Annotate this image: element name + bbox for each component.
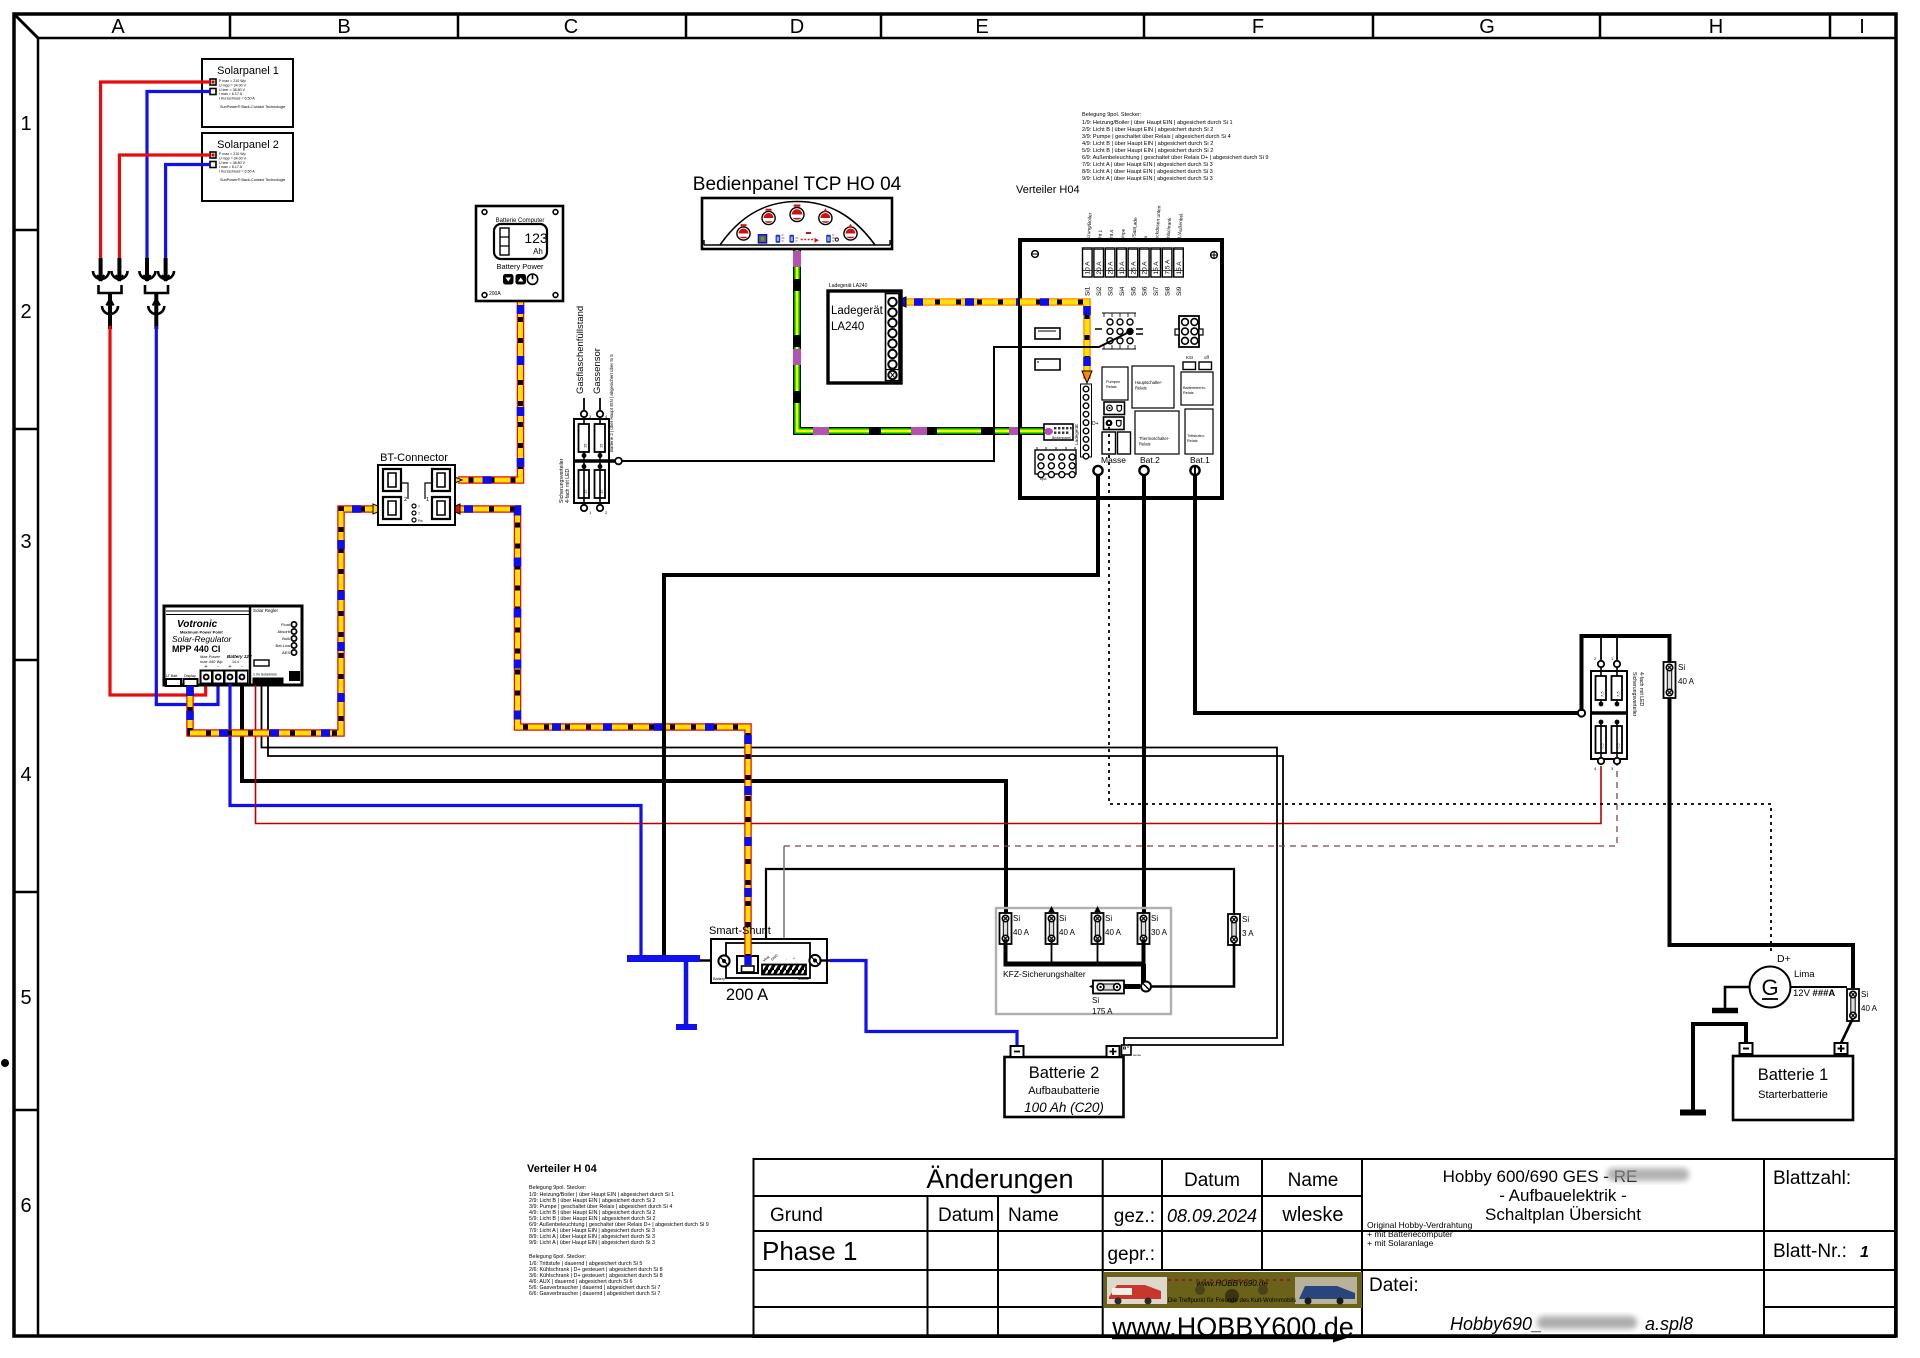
solar socket bracket 1 xyxy=(99,285,122,293)
svg-text:Gasflaschenfüllstand: Gasflaschenfüllstand xyxy=(575,306,586,394)
svg-text:200A: 200A xyxy=(489,291,501,297)
cable loom Ladegeraet inside Verteiler xyxy=(1020,302,1092,383)
wire fuse to battery1 plus diagonal xyxy=(1841,1018,1853,1043)
svg-text:4/9: Licht B | über Haupt EIN: 4/9: Licht B | über Haupt EIN | abgesich… xyxy=(1082,141,1213,147)
svg-text:40 A: 40 A xyxy=(1013,928,1030,937)
wire solar string1 red down xyxy=(110,326,206,695)
svg-text:175 A: 175 A xyxy=(1092,1007,1113,1016)
Bedienpanel dial 3 xyxy=(790,205,804,222)
title block logo banner xyxy=(1104,1272,1362,1308)
svg-text:Batterie 1: Batterie 1 xyxy=(1758,1066,1829,1084)
svg-text:Aufbaubatterie: Aufbaubatterie xyxy=(1028,1085,1100,1097)
Bedienpanel dial 4 xyxy=(819,208,832,224)
svg-text:9/9: Licht A | über Haupt EIN: 9/9: Licht A | über Haupt EIN | abgesich… xyxy=(1082,176,1213,182)
svg-text:4-fach mit LED: 4-fach mit LED xyxy=(565,468,571,503)
svg-text:SunPower® Back-Contact Technol: SunPower® Back-Contact Technologie xyxy=(220,105,285,109)
svg-text:sense: sense xyxy=(1133,1053,1141,1057)
frame left band inner line xyxy=(37,38,40,1335)
wire votronic sense red xyxy=(256,685,1602,824)
Verteiler relay Batterietrenn xyxy=(1181,372,1213,405)
Belegung 9pol text block top xyxy=(1082,112,1269,182)
svg-text:Display: Display xyxy=(184,674,196,678)
svg-text:Si: Si xyxy=(1013,914,1020,923)
Verteiler relay R2 Hauptschalter xyxy=(1132,366,1174,408)
svg-text:off: off xyxy=(1204,355,1210,360)
svg-text:Phase 1: Phase 1 xyxy=(762,1236,857,1266)
svg-text:Bedienpanel: Bedienpanel xyxy=(1052,436,1071,440)
gas distributor terminals top xyxy=(581,411,587,417)
svg-text:I: I xyxy=(1859,16,1865,38)
Bedienpanel switch icons row xyxy=(759,232,839,243)
ground bar small blue xyxy=(676,1024,697,1030)
svg-text:Bedienpanel TCP HO 04: Bedienpanel TCP HO 04 xyxy=(693,174,902,195)
cable loom tail into shunt xyxy=(744,938,751,965)
svg-text:I max = 6.17 A: I max = 6.17 A xyxy=(219,92,243,96)
svg-text:15 A: 15 A xyxy=(1153,261,1160,275)
wire SP1 plus red xyxy=(101,82,210,260)
svg-text:Datum: Datum xyxy=(1184,1170,1240,1191)
svg-text:Ladegerät: Ladegerät xyxy=(1074,424,1079,445)
svg-text:14.4: 14.4 xyxy=(232,660,239,664)
svg-text:1 im Solarkreis: 1 im Solarkreis xyxy=(253,673,277,677)
svg-text:Name: Name xyxy=(1288,1170,1339,1191)
Verteiler small boxes under contacts xyxy=(1102,432,1131,454)
svg-text:A: A xyxy=(111,16,125,38)
wire votronic batt minus blue xyxy=(230,684,641,958)
Sicherungsverteiler right top terminals xyxy=(1601,638,1617,661)
svg-text:Ladegerät LA240: Ladegerät LA240 xyxy=(829,283,868,289)
svg-text:7,5: 7,5 xyxy=(1600,691,1605,697)
svg-text:2/9: Licht B | über Haupt EIN: 2/9: Licht B | über Haupt EIN | abgesich… xyxy=(1082,127,1213,133)
svg-text:Belegung 9pol. Stecker:: Belegung 9pol. Stecker: xyxy=(529,1185,586,1191)
svg-text:15 A: 15 A xyxy=(1176,261,1183,275)
cable loom Bedienpanel to Verteiler green xyxy=(797,249,1046,431)
svg-text:Relais: Relais xyxy=(1183,391,1194,395)
svg-text:9/9: Licht A | über Haupt EIN: 9/9: Licht A | über Haupt EIN | abgesich… xyxy=(529,1240,655,1246)
svg-text:Solarpanel 1: Solarpanel 1 xyxy=(217,65,279,77)
svg-text:SunPower® Back-Contact Technol: SunPower® Back-Contact Technologie xyxy=(220,178,285,182)
title block xyxy=(754,1159,1896,1338)
svg-text:Hobby690_: Hobby690_ xyxy=(1450,1314,1542,1334)
wire SP2 minus blue xyxy=(166,165,210,261)
svg-text:I max = 6.17 A: I max = 6.17 A xyxy=(219,165,243,169)
svg-text:Sicherungsverteiler: Sicherungsverteiler xyxy=(559,458,565,503)
svg-text:Thermoschalter-: Thermoschalter- xyxy=(1139,436,1170,441)
svg-text:LA240: LA240 xyxy=(831,321,864,333)
svg-text:5/9: Licht B | über Haupt EIN: 5/9: Licht B | über Haupt EIN | abgesich… xyxy=(1082,148,1213,154)
wire gas distributor to relay grid xyxy=(619,332,1129,461)
svg-text:Pumpen: Pumpen xyxy=(1106,380,1120,384)
svg-text:20 A: 20 A xyxy=(1108,261,1115,275)
KFZ fuse Si 30A no4 xyxy=(1138,913,1168,944)
svg-text:25 A: 25 A xyxy=(1130,261,1137,275)
KFZ-Sicherungshalter gray box xyxy=(996,908,1171,1014)
svg-text:40 A: 40 A xyxy=(1861,1004,1878,1013)
solar plug output 1 xyxy=(102,293,118,329)
Verteiler KSI label boxes xyxy=(1183,355,1212,370)
svg-text:1: 1 xyxy=(1860,1244,1869,1261)
svg-text:T: T xyxy=(418,512,420,516)
frame column dividers xyxy=(230,14,1830,38)
svg-text:1: 1 xyxy=(20,113,31,135)
wire solar string1 blue down xyxy=(156,326,218,705)
fuse Si 40A at starter battery xyxy=(1847,989,1878,1021)
Batterie 2 box xyxy=(1005,1057,1124,1117)
svg-text:F: F xyxy=(1252,16,1264,38)
svg-text:Relais: Relais xyxy=(1187,439,1198,443)
Sicherungsverteiler right box xyxy=(1578,667,1627,759)
svg-text:U leer = 38.80 V: U leer = 38.80 V xyxy=(219,88,246,92)
Solarpanel 1 xyxy=(202,59,293,127)
svg-text:Datei:: Datei: xyxy=(1369,1275,1419,1296)
Verteiler white box upper left xyxy=(1035,328,1060,339)
wire bus up over to Si40A xyxy=(1582,636,1670,711)
wire shunt right to Batterie2 minus xyxy=(821,959,832,961)
svg-text:Batterietrenn-: Batterietrenn- xyxy=(1183,386,1207,390)
svg-text:Solar-Regulator: Solar-Regulator xyxy=(172,634,233,644)
svg-text:Si: Si xyxy=(1105,914,1112,923)
svg-text:Ladegerät: Ladegerät xyxy=(831,305,884,317)
svg-text:Schaltplan Übersicht: Schaltplan Übersicht xyxy=(1485,1205,1641,1224)
wire votronic batt plus black to fuse xyxy=(242,684,1006,914)
wire votronic sense black B xyxy=(268,685,1283,1045)
cable loom BT-connector to smart-shunt xyxy=(448,504,753,966)
svg-text:8/9: Licht A | über Haupt EIN: 8/9: Licht A | über Haupt EIN | abgesich… xyxy=(1082,169,1213,175)
svg-text:Trittstufen-: Trittstufen- xyxy=(1187,434,1206,438)
svg-text:Hauptschalter-: Hauptschalter- xyxy=(1135,380,1163,385)
svg-text:- Aufbauelektrik -: - Aufbauelektrik - xyxy=(1499,1186,1627,1205)
wire shunt dashed sense to Sicherungsverteiler xyxy=(784,765,1617,846)
Bedienpanel dial 1 xyxy=(737,224,750,240)
Votronic terminal block xyxy=(200,664,249,685)
gas distributor 4-fach box xyxy=(574,417,622,507)
svg-text:Relais: Relais xyxy=(1135,386,1147,391)
KFZ fuse Si 40A no1 xyxy=(1000,913,1030,944)
Sicherungsverteiler right bottom terminals xyxy=(1598,758,1604,764)
svg-text:C: C xyxy=(564,16,578,38)
svg-text:gepr.:: gepr.: xyxy=(1107,1244,1155,1265)
svg-text:Gassensor: Gassensor xyxy=(592,348,603,394)
Votronic solar regulator U1 xyxy=(164,606,302,685)
svg-text:Solar Regler: Solar Regler xyxy=(253,608,279,613)
Verteiler screw top-right xyxy=(1211,252,1218,259)
solar socket bracket 2 xyxy=(145,285,168,293)
svg-text:6/6: Gasverbraucher | dauernd: 6/6: Gasverbraucher | dauernd | abgesich… xyxy=(529,1291,660,1297)
svg-text:Si8: Si8 xyxy=(1165,286,1172,296)
Batterie 2 sense connector xyxy=(1122,1045,1142,1057)
svg-text:6/9: Außenbeleuchtung | gescha: 6/9: Außenbeleuchtung | geschaltet über … xyxy=(1082,155,1269,161)
svg-text:15: 15 xyxy=(583,443,588,448)
svg-text:Si: Si xyxy=(1242,915,1249,924)
svg-text:7/9: Licht A | über Haupt EIN: 7/9: Licht A | über Haupt EIN | abgesich… xyxy=(1082,162,1213,168)
title block blurred project suffix xyxy=(1607,1168,1689,1181)
ground bus bar blue xyxy=(627,955,700,962)
svg-text:P max = 210 Wp: P max = 210 Wp xyxy=(219,79,246,83)
wire lima to ground xyxy=(1725,987,1750,1008)
Votronic aux port LT xyxy=(166,674,181,686)
KFZ fuse bus xyxy=(1004,940,1146,986)
svg-text:Relais: Relais xyxy=(1139,442,1151,447)
svg-text:max 440 Wp: max 440 Wp xyxy=(200,659,223,664)
svg-text:Votronic: Votronic xyxy=(177,619,218,630)
wire 175A to Si3A bottom xyxy=(1151,942,1234,987)
svg-text:6pol: 6pol xyxy=(1040,477,1047,481)
Verteiler 12pin connector xyxy=(1035,447,1076,481)
Batterie 1 box xyxy=(1733,1056,1853,1120)
Verteiler 9pin charger connector xyxy=(1074,384,1092,459)
KFZ fuse Si 40A no2 xyxy=(1046,906,1076,944)
svg-text:2: 2 xyxy=(20,301,31,323)
BT-Connector box xyxy=(378,465,455,525)
svg-text:2: 2 xyxy=(404,497,407,503)
svg-text:Starterbatterie: Starterbatterie xyxy=(1758,1089,1828,1101)
svg-text:1: 1 xyxy=(426,497,429,503)
Verteiler green panel connector xyxy=(1044,424,1073,440)
svg-text:Änderungen: Änderungen xyxy=(926,1164,1073,1194)
cable loom battery-computer to BT-connector xyxy=(450,301,521,485)
svg-text:Bat.Low: Bat.Low xyxy=(276,643,291,648)
Votronic display port xyxy=(184,674,198,686)
Verteiler H 04 bottom text block xyxy=(527,1163,709,1297)
svg-text:123: 123 xyxy=(524,230,548,246)
svg-text:30 A: 30 A xyxy=(1151,928,1168,937)
Bedienpanel dial 2 xyxy=(762,209,775,225)
svg-text:40 A: 40 A xyxy=(1105,928,1122,937)
svg-text:200 A: 200 A xyxy=(726,986,768,1004)
svg-text:Pw: Pw xyxy=(418,519,423,523)
svg-text:Si7: Si7 xyxy=(1153,286,1160,296)
frame row dividers xyxy=(14,230,38,1110)
Batterie 2 plus terminal xyxy=(1107,1046,1120,1057)
Verteiler relay contact block lower D+ xyxy=(1092,417,1124,430)
Verteiler relay R1 xyxy=(1102,367,1128,400)
svg-text:3/9: Pumpe | geschaltet über R: 3/9: Pumpe | geschaltet über Relais | ab… xyxy=(1082,134,1231,140)
svg-text:AES: AES xyxy=(282,650,290,655)
wire shunt sense to Si3A black xyxy=(766,869,1234,963)
svg-text:Name: Name xyxy=(1008,1205,1059,1226)
gas distributor terminals bottom xyxy=(581,505,587,511)
cable loom BT-connector to votronic display xyxy=(186,504,385,733)
svg-text:Masse: Masse xyxy=(798,977,809,981)
svg-text:E: E xyxy=(975,16,988,38)
svg-text:1/9: Heizung/Boiler | über Hau: 1/9: Heizung/Boiler | über Haupt EIN | a… xyxy=(1082,120,1233,126)
Verteiler H04 box xyxy=(1020,240,1222,498)
solar plug connector pins group 2 xyxy=(139,258,174,281)
svg-text:U mpp = 34.00 V: U mpp = 34.00 V xyxy=(219,83,247,87)
svg-text:Bulk: Bulk xyxy=(282,636,290,641)
svg-text:3 A: 3 A xyxy=(1242,929,1254,938)
svg-text:12V ###A: 12V ###A xyxy=(1793,988,1835,999)
svg-text:a.spl8: a.spl8 xyxy=(1645,1314,1693,1334)
svg-text:100 Ah (C20): 100 Ah (C20) xyxy=(1024,1100,1104,1115)
svg-text:KFZ-Sicherungshalter: KFZ-Sicherungshalter xyxy=(1003,969,1086,979)
Verteiler terminal Bat.2 xyxy=(1139,455,1160,475)
svg-text:I Kurzschluss = 6.50 A: I Kurzschluss = 6.50 A xyxy=(219,170,255,174)
Verteiler fuse bank Si1-Si9 xyxy=(1083,248,1184,296)
svg-text:Battery: Battery xyxy=(713,977,725,981)
svg-text:Sicherungsverteiler: Sicherungsverteiler xyxy=(1631,672,1637,717)
Batterie 2 minus terminal xyxy=(1011,1046,1024,1057)
svg-text:40 A: 40 A xyxy=(1678,677,1695,686)
wire Verteiler Bat2 to Si30A xyxy=(1142,474,1146,914)
svg-text:B: B xyxy=(337,16,350,38)
svg-text:Verteiler H04: Verteiler H04 xyxy=(1016,184,1080,196)
wire shunt gray sense up xyxy=(783,846,785,963)
svg-text:Masse: Masse xyxy=(1101,455,1126,465)
svg-text:Verteiler H 04: Verteiler H 04 xyxy=(527,1163,598,1175)
svg-text:7,5 A: 7,5 A xyxy=(1165,259,1172,274)
frame header band bottom line xyxy=(38,37,1895,40)
svg-text:Float: Float xyxy=(281,622,291,627)
ground symbol lima xyxy=(1712,1008,1738,1014)
Bedienpanel box xyxy=(702,198,892,249)
wire SP1 minus blue xyxy=(147,92,210,261)
Votronic solar sense connector xyxy=(253,673,284,686)
wire Si40A down to starter battery fuse xyxy=(1670,698,1854,988)
wire SP2 plus red xyxy=(119,155,210,260)
wire battery1 minus to chassis ground xyxy=(1693,1024,1746,1110)
svg-text:Si: Si xyxy=(1861,990,1868,999)
Solarpanel 2 xyxy=(202,133,293,201)
svg-text:U leer = 38.80 V: U leer = 38.80 V xyxy=(219,161,246,165)
svg-text:Si9: Si9 xyxy=(1176,286,1183,296)
Verteiler relay Trittstufen xyxy=(1185,409,1213,454)
wire Verteiler Masse to ground bus xyxy=(664,474,1098,958)
generator Lima G xyxy=(1750,967,1836,1008)
svg-text:Si: Si xyxy=(1059,914,1066,923)
fuse Si 40A right xyxy=(1664,662,1695,698)
svg-text:I Kurzschluss = 6.50 A: I Kurzschluss = 6.50 A xyxy=(219,97,255,101)
svg-text:Absorb: Absorb xyxy=(277,629,290,634)
svg-text:Grund: Grund xyxy=(770,1205,823,1226)
Batterie 1 minus terminal xyxy=(1740,1043,1753,1054)
cable loom Ladegeraet to Verteiler xyxy=(894,297,1092,383)
svg-text:LT Batt: LT Batt xyxy=(166,674,177,678)
title block arrow under logo xyxy=(1112,1337,1336,1340)
solar plug output 2 xyxy=(148,293,164,329)
Verteiler relay option grid xyxy=(1095,313,1143,349)
Verteiler 6pin connector xyxy=(1175,316,1203,347)
svg-text:Blatt-Nr.:: Blatt-Nr.: xyxy=(1773,1241,1847,1262)
fuse Si 3A xyxy=(1228,914,1254,945)
stray dot at left margin xyxy=(1,1059,9,1067)
svg-text:Lima: Lima xyxy=(1794,969,1815,980)
svg-text:Ah: Ah xyxy=(533,247,543,256)
svg-text:G: G xyxy=(1479,16,1495,38)
svg-text:U mpp = 34.00 V: U mpp = 34.00 V xyxy=(219,156,247,160)
svg-text:gez.:: gez.: xyxy=(1114,1206,1155,1227)
svg-text:4: 4 xyxy=(20,764,31,786)
svg-text:Si2: Si2 xyxy=(1096,286,1103,296)
Smart-Shunt 200A xyxy=(711,939,827,983)
KFZ fuse Si 40A no3 xyxy=(1092,906,1122,944)
Verteiler relay contact block upper xyxy=(1104,402,1125,415)
svg-text:Belegung 9pol. Stecker:: Belegung 9pol. Stecker: xyxy=(1082,112,1142,118)
wire lima B+ to fuse xyxy=(1791,986,1848,988)
svg-text:D+: D+ xyxy=(1092,421,1099,427)
svg-text:Si6: Si6 xyxy=(1142,286,1149,296)
solar plug connector pins group 1 xyxy=(93,258,128,281)
svg-text:+: + xyxy=(205,664,208,670)
cable loom Bedienpanel inside Verteiler xyxy=(1020,427,1045,435)
frame corner diagonal xyxy=(15,15,38,38)
svg-text:20 A: 20 A xyxy=(1142,261,1149,275)
svg-text:T: T xyxy=(418,505,420,509)
wire votronic sense black A xyxy=(262,685,1278,1045)
svg-text:Si4: Si4 xyxy=(1119,286,1126,296)
svg-text:P max = 210 Wp: P max = 210 Wp xyxy=(219,152,246,156)
svg-text:7,5: 7,5 xyxy=(1616,691,1621,697)
svg-text:15: 15 xyxy=(599,443,604,448)
Verteiler white box lower left xyxy=(1035,359,1060,370)
ground symbol battery1 xyxy=(1680,1110,1706,1116)
ground stub blue xyxy=(684,961,689,1025)
svg-text:G: G xyxy=(1761,975,1778,1000)
Ladegeraet LA240 charger xyxy=(828,291,901,383)
svg-text:Blattzahl:: Blattzahl: xyxy=(1773,1168,1851,1189)
svg-text:Relais: Relais xyxy=(1106,385,1117,389)
Verteiler screw top-left xyxy=(1032,251,1039,258)
gas distributor stubs xyxy=(584,398,600,411)
Bedienpanel dial 5 xyxy=(844,224,857,240)
svg-text:6: 6 xyxy=(20,1195,31,1217)
wire Verteiler Bat1 to Sicherungsverteiler xyxy=(1195,474,1578,713)
svg-text:08.09.2024: 08.09.2024 xyxy=(1167,1206,1257,1226)
wire D+ dotted signal xyxy=(1109,427,1771,955)
svg-text:Si: Si xyxy=(1151,914,1158,923)
svg-text:3: 3 xyxy=(20,531,31,553)
svg-text:Datum: Datum xyxy=(938,1205,994,1226)
svg-text:+ mit Solaranlage: + mit Solaranlage xyxy=(1367,1238,1434,1248)
svg-text:Si: Si xyxy=(1678,663,1685,672)
svg-text:10 A: 10 A xyxy=(1085,261,1092,275)
svg-text:wleske: wleske xyxy=(1281,1204,1343,1226)
svg-text:20 A: 20 A xyxy=(1096,261,1103,275)
svg-text:Si: Si xyxy=(1092,996,1099,1005)
svg-text:Bat.1: Bat.1 xyxy=(1190,455,1210,465)
svg-text:Battery Power: Battery Power xyxy=(496,262,544,271)
svg-text:KSI: KSI xyxy=(1186,355,1193,360)
svg-text:Die Treffpunkt für Freunde des: Die Treffpunkt für Freunde des Kult-Wohn… xyxy=(1168,1298,1296,1304)
svg-text:Si1: Si1 xyxy=(1085,286,1092,296)
svg-text:Solarpanel 2: Solarpanel 2 xyxy=(217,139,279,151)
svg-text:Belegung 6pol. Stecker:: Belegung 6pol. Stecker: xyxy=(529,1254,586,1260)
svg-text:40 A: 40 A xyxy=(1059,928,1076,937)
svg-text:5: 5 xyxy=(20,987,31,1009)
Verteiler relay Thermoschalter xyxy=(1135,411,1179,454)
svg-text:D: D xyxy=(790,16,804,38)
svg-text:Si3: Si3 xyxy=(1108,286,1115,296)
svg-text:10 A: 10 A xyxy=(1119,261,1126,275)
svg-text:MPP 440 CI: MPP 440 CI xyxy=(172,644,220,654)
svg-text:+: + xyxy=(793,957,795,961)
svg-text:Battery 12V: Battery 12V xyxy=(227,654,253,659)
Verteiler terminal Masse xyxy=(1093,455,1126,475)
svg-text:Si5: Si5 xyxy=(1130,286,1137,296)
svg-text:BT-Connector: BT-Connector xyxy=(380,452,448,464)
svg-text:H: H xyxy=(1709,16,1723,38)
Verteiler terminal Bat.1 xyxy=(1190,455,1210,475)
svg-text:D+: D+ xyxy=(1777,953,1791,965)
fuse Si 175A horizontal xyxy=(1089,981,1151,1017)
svg-text:Smart-Shunt: Smart-Shunt xyxy=(709,925,771,937)
Batterie Computer display unit xyxy=(476,206,563,301)
svg-text:4-fach mit LED: 4-fach mit LED xyxy=(1638,672,1644,707)
svg-text:+: + xyxy=(229,664,232,670)
svg-text:-: - xyxy=(786,957,787,961)
Batterie 1 plus terminal xyxy=(1835,1043,1848,1054)
svg-text:Bat.2: Bat.2 xyxy=(1140,455,1160,465)
